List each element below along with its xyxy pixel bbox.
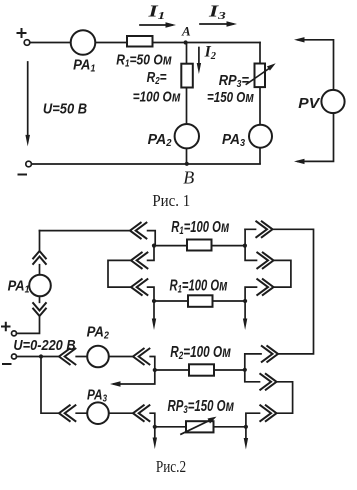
svg-text:Рис.2: Рис.2	[156, 457, 186, 476]
connector chevron left (PA2 left)	[59, 348, 76, 365]
wire right top row to bus	[245, 229, 314, 369]
connector chevron up (above PA1)	[33, 251, 47, 265]
connector chevron left (PA2 right)	[133, 348, 150, 365]
current arrow I3	[200, 23, 233, 25]
wire RP3 row	[155, 426, 246, 428]
node dot row1 right	[243, 244, 247, 248]
rheostat RP3 (fig1)	[255, 64, 266, 88]
node dot R2 left	[153, 368, 157, 372]
node dot RP3 right	[244, 425, 248, 429]
wire left detour (rows 2-3)	[108, 246, 154, 301]
wire top (fig1)	[30, 42, 260, 44]
wire right detour upper	[245, 229, 291, 301]
wire PA1 column upper	[39, 231, 41, 275]
rheostat arrow RP3	[246, 69, 269, 85]
wire bottom (fig1)	[32, 163, 261, 165]
connector chevron left (row3)	[131, 279, 148, 296]
connector chevron right (top row)	[256, 221, 273, 238]
voltmeter loop wire top (fig1)	[298, 40, 334, 90]
connector chevron right (row 287)	[257, 279, 274, 296]
wire R2 row	[155, 369, 245, 371]
ammeter PA2 (fig1)	[175, 124, 199, 148]
resistor R1 row2 (fig2)	[188, 295, 213, 307]
connector chevron left (row2)	[131, 252, 148, 269]
rheostat arrow RP3 (fig2)	[181, 419, 213, 434]
terminal plus (fig1)	[24, 40, 30, 46]
arrow down below row2 right	[244, 301, 246, 320]
connector chevron down (below PA1)	[33, 302, 47, 316]
resistor R2 (fig1)	[181, 64, 193, 88]
ammeter PA3 (fig2)	[87, 402, 109, 424]
minus sign (fig2)	[3, 363, 11, 365]
node A dot	[184, 40, 188, 44]
ammeter PA2 (fig2)	[87, 346, 109, 368]
voltmeter loop wire bottom (fig1)	[298, 113, 334, 161]
terminal minus (fig2)	[12, 354, 17, 359]
wire minus column to PA3	[41, 357, 87, 414]
wire minus to PA2	[17, 356, 88, 358]
wire PA2 to R2 row	[109, 357, 155, 371]
plus sign (fig2)	[2, 323, 10, 330]
svg-text:B: B	[183, 168, 194, 188]
svg-text:R1=50 Ом: R1=50 Ом	[116, 52, 172, 70]
terminal plus (fig2)	[12, 331, 17, 336]
wire R1 row1	[154, 245, 245, 247]
arrow down below RP3 left	[154, 427, 156, 438]
connector chevron right (row 260)	[257, 252, 274, 269]
ammeter PA1 (fig1)	[71, 30, 96, 55]
node dot row2 right	[243, 299, 247, 303]
resistor R2 (fig2)	[189, 364, 214, 375]
svg-text:U=50 В: U=50 В	[43, 100, 87, 117]
arrow down below row2 left	[153, 301, 155, 320]
current arrow I2	[198, 48, 200, 66]
ammeter PA1 (fig2)	[29, 275, 51, 297]
wire R1 row2	[154, 300, 245, 302]
node B dot	[185, 162, 189, 166]
current arrow I1	[140, 24, 172, 26]
wire top feed (fig2)	[40, 231, 156, 246]
node dot minus junction	[39, 354, 43, 358]
voltmeter PV circle	[321, 90, 344, 113]
node dot RP3 left	[153, 425, 157, 429]
resistor R1 (fig1)	[127, 36, 153, 47]
connector chevron right (row 382)	[260, 373, 277, 390]
terminal minus (fig1)	[26, 161, 32, 167]
wire PA1 column lower	[39, 296, 41, 302]
wire PA3 to RP3 row	[109, 413, 155, 427]
svg-text:PV: PV	[298, 95, 321, 112]
resistor R1 row1 (fig2)	[187, 240, 212, 251]
connector chevron left (top feed)	[130, 222, 147, 239]
connector chevron left (PA3 left)	[59, 405, 76, 422]
svg-text:=150 Ом: =150 Ом	[207, 89, 254, 106]
connector chevron right (row 413)	[260, 405, 277, 422]
svg-text:A: A	[181, 24, 191, 39]
node dot R2 right	[243, 368, 247, 372]
voltage arrow U (fig1)	[27, 62, 29, 136]
arrow down below RP3 right	[245, 427, 247, 439]
wire plus to PA1 column	[17, 316, 40, 333]
rheostat RP3 (fig2)	[186, 421, 214, 432]
svg-text:RP3=150 Ом: RP3=150 Ом	[168, 398, 235, 416]
svg-text:U=0-220 В: U=0-220 В	[13, 337, 75, 354]
wire branch R2 (fig1)	[186, 43, 188, 164]
arrow left from R2 junction	[114, 370, 155, 384]
svg-text:=100 Ом: =100 Ом	[133, 89, 181, 106]
minus sign (fig1)	[19, 174, 27, 176]
ammeter PA3 (fig1)	[249, 125, 272, 148]
svg-text:RP3=: RP3=	[219, 72, 250, 90]
connector chevron left (PA3 right)	[133, 405, 150, 422]
connector chevron right (bus row)	[261, 345, 278, 362]
plus sign (fig1)	[18, 29, 26, 37]
wire right detour lower	[245, 370, 293, 427]
node dot row2 left	[152, 299, 156, 303]
svg-text:Рис. 1: Рис. 1	[152, 191, 190, 210]
node dot row1 left	[152, 244, 156, 248]
wire branch RP3 (fig1)	[259, 43, 261, 164]
